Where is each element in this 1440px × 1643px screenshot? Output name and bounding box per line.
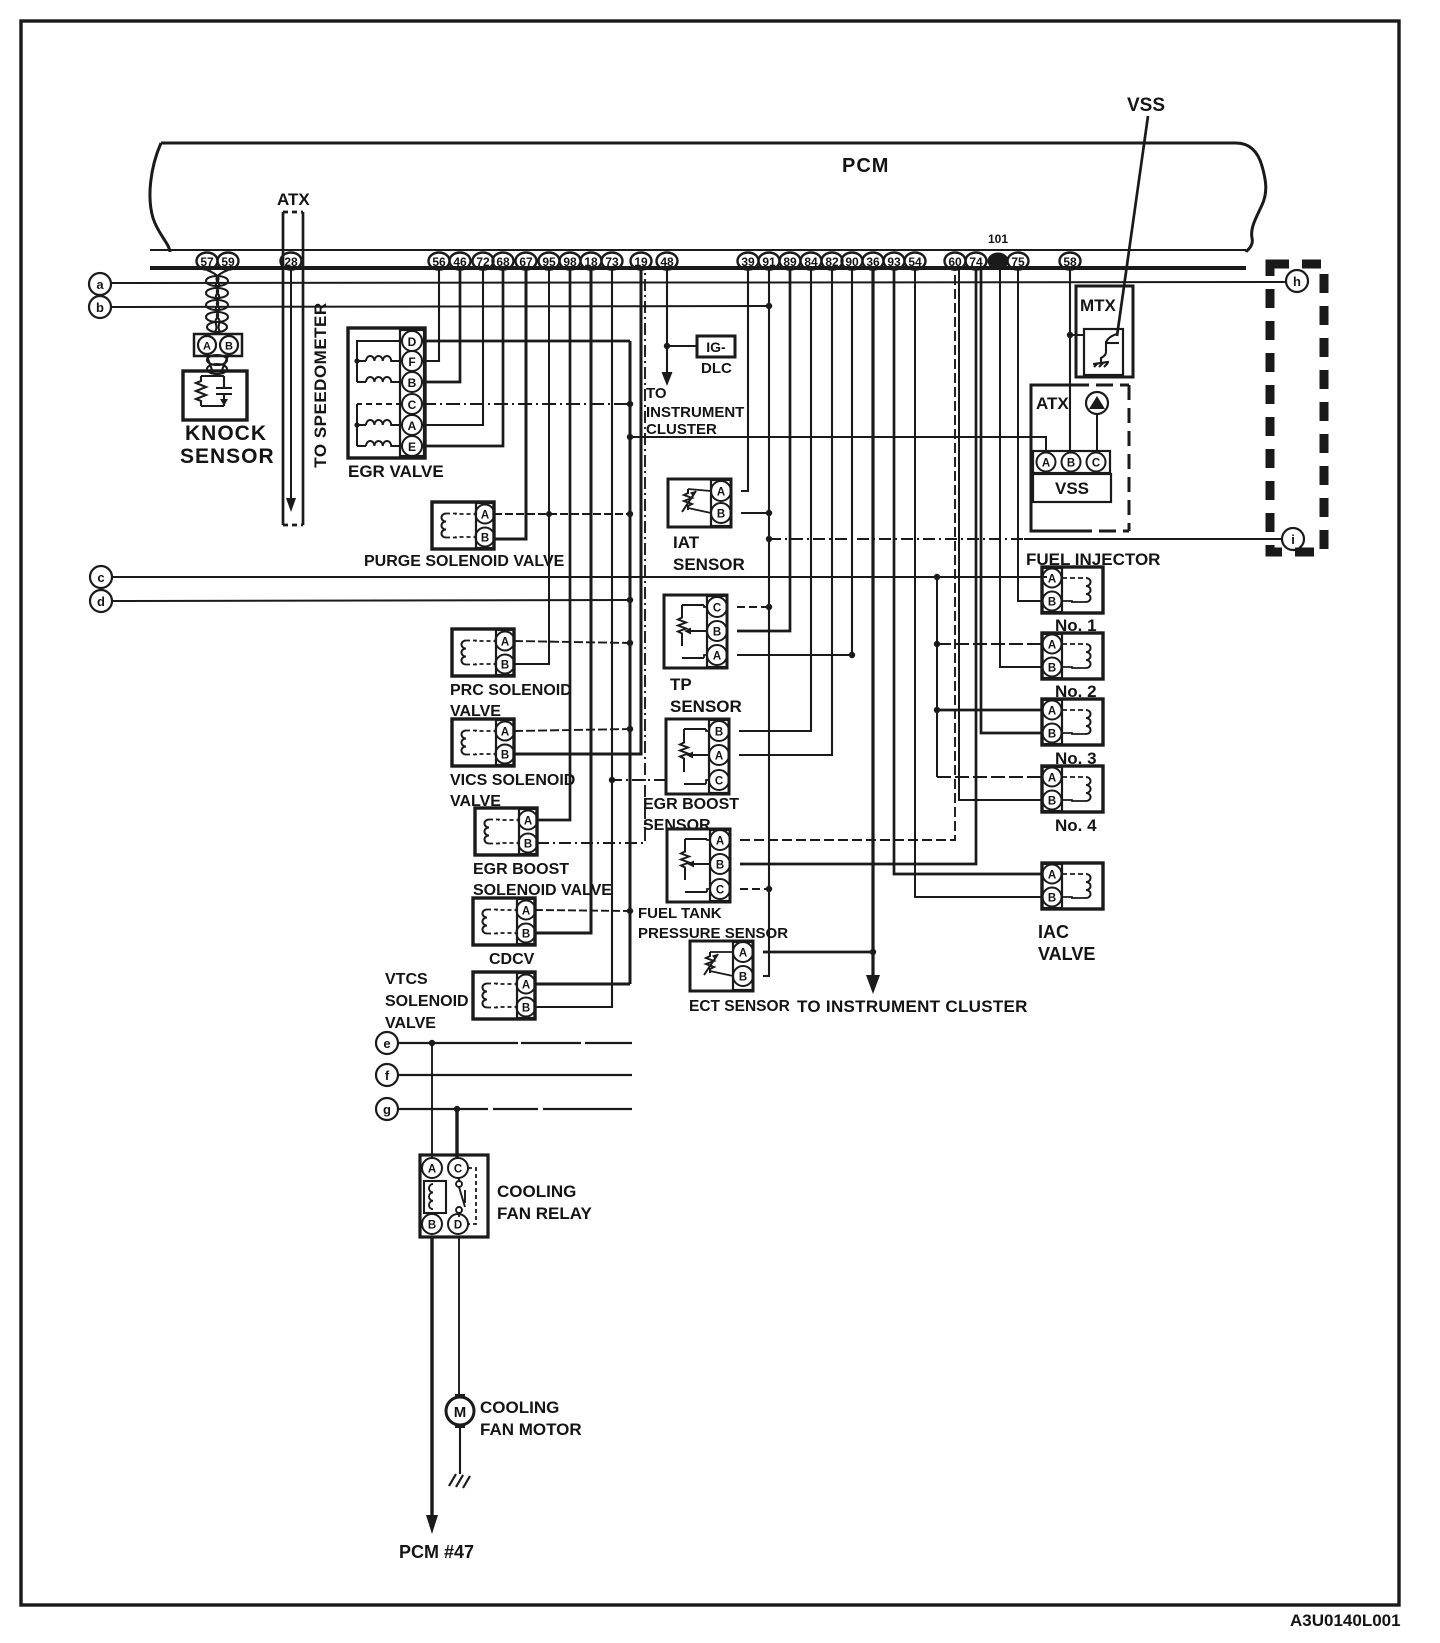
wire IAC A to pin 93 (894, 270, 1042, 874)
svg-text:c: c (97, 570, 104, 585)
pin 90 (842, 253, 863, 270)
wire injector No.1 B to pin 75 (1018, 270, 1042, 601)
svg-text:h: h (1293, 274, 1301, 289)
svg-text:TO: TO (646, 385, 667, 402)
pin 82 (822, 253, 843, 270)
node f (376, 1064, 398, 1086)
node a (89, 273, 111, 295)
node b (89, 296, 111, 318)
svg-text:SOLENOID: SOLENOID (385, 993, 469, 1010)
pin 54 (905, 253, 926, 270)
wire VICS A to supply bus (514, 729, 630, 731)
svg-text:A: A (1048, 773, 1056, 785)
svg-text:B: B (524, 839, 532, 851)
svg-text:B: B (501, 660, 509, 672)
svg-text:91: 91 (762, 255, 776, 269)
svg-text:C: C (1092, 458, 1100, 470)
sensor ground bus (pin 91) (768, 270, 770, 977)
pin 75 (1008, 253, 1029, 270)
node g (376, 1098, 398, 1120)
svg-text:18: 18 (584, 255, 598, 269)
svg-text:57: 57 (200, 255, 214, 269)
wire a to h (111, 282, 1286, 283)
svg-text:FUEL TANK: FUEL TANK (638, 905, 722, 922)
svg-text:EGR VALVE: EGR VALVE (348, 462, 444, 481)
svg-text:98: 98 (563, 255, 577, 269)
svg-text:PCM #47: PCM #47 (399, 1542, 474, 1562)
svg-text:B: B (1048, 796, 1056, 808)
wire d to supply bus (112, 597, 633, 603)
svg-text:IAT: IAT (673, 533, 700, 552)
svg-text:A: A (203, 341, 211, 353)
wire FTP B to pin 74 (740, 270, 976, 864)
pin 73 (602, 253, 623, 270)
wire EGR A to pin 72 (422, 270, 483, 425)
svg-text:B: B (225, 341, 233, 353)
wire CDCV B to pin 18 (535, 270, 591, 933)
wire g junction down to relay C (455, 1109, 458, 1158)
svg-text:B: B (501, 750, 509, 762)
svg-text:a: a (96, 277, 104, 292)
EGR boost sensor (666, 719, 729, 794)
svg-text:39: 39 (741, 255, 755, 269)
svg-text:F: F (408, 355, 415, 369)
svg-text:PCM: PCM (842, 155, 889, 177)
svg-text:B: B (739, 972, 747, 984)
svg-text:B: B (716, 860, 724, 872)
wire PRC A to supply bus (514, 641, 630, 643)
wire VICS B to pin 19 (514, 270, 641, 754)
svg-text:28: 28 (284, 255, 298, 269)
pin 46 (450, 253, 471, 270)
wire supply bus to ATX connector A (630, 437, 1046, 453)
fuel injector No.1 (1042, 567, 1103, 613)
purge solenoid valve (432, 502, 495, 549)
svg-text:54: 54 (908, 255, 922, 269)
svg-text:SENSOR: SENSOR (180, 445, 275, 468)
svg-text:A: A (716, 836, 724, 848)
svg-text:B: B (1067, 458, 1075, 470)
MTX speed sensor switch symbol (1093, 334, 1119, 367)
svg-text:MTX: MTX (1080, 296, 1117, 315)
svg-text:B: B (408, 376, 417, 390)
svg-text:A: A (717, 487, 725, 499)
wire injector No.4 A (937, 776, 1042, 778)
svg-text:19: 19 (634, 255, 648, 269)
wire EGR B to pin 46 (422, 270, 460, 382)
wire IAC B to pin 54 (915, 270, 1042, 897)
svg-text:C: C (454, 1164, 462, 1176)
svg-text:EGR BOOST: EGR BOOST (473, 861, 569, 878)
PCM module body (150, 143, 1266, 252)
svg-text:i: i (1291, 532, 1295, 547)
svg-text:75: 75 (1011, 255, 1025, 269)
supply bus vertical (node B+) (627, 341, 633, 984)
pin 56 (429, 253, 450, 270)
wire e (to relay A) (398, 1040, 632, 1046)
svg-text:VALVE: VALVE (385, 1015, 436, 1032)
svg-text:f: f (385, 1068, 390, 1083)
fuel injector No.3 (1042, 699, 1103, 745)
svg-text:TP: TP (670, 675, 692, 694)
ATX speedometer band (283, 212, 303, 525)
IAC valve (1042, 863, 1103, 909)
svg-text:A: A (1042, 458, 1050, 470)
svg-text:B: B (522, 929, 530, 941)
wire IAT A to pin 39 (741, 270, 748, 491)
svg-text:A: A (1048, 574, 1056, 586)
svg-text:FAN MOTOR: FAN MOTOR (480, 1420, 582, 1439)
svg-text:COOLING: COOLING (480, 1398, 559, 1417)
wire TP B to pin 89 (737, 270, 790, 631)
svg-text:B: B (717, 509, 725, 521)
svg-text:72: 72 (476, 255, 490, 269)
svg-text:C: C (715, 776, 723, 788)
PCM connector strip lower line (150, 266, 1246, 270)
svg-text:M: M (454, 1404, 467, 1421)
PCM connector strip upper line (150, 249, 1246, 251)
svg-text:C: C (713, 603, 721, 615)
pin 89 (780, 253, 801, 270)
svg-text:VICS SOLENOID: VICS SOLENOID (450, 772, 575, 789)
svg-text:TO SPEEDOMETER: TO SPEEDOMETER (311, 302, 330, 467)
wire injector No.4 B (959, 270, 1042, 800)
wire e junction down to relay A (431, 1043, 433, 1158)
wire EGR D to supply bus (422, 340, 630, 343)
svg-text:C: C (408, 398, 417, 412)
svg-text:A: A (739, 948, 747, 960)
wire VTCS B to pin 73 (535, 270, 612, 1007)
ATX unit (VSS) (1031, 385, 1129, 531)
svg-text:FAN RELAY: FAN RELAY (497, 1204, 592, 1223)
svg-text:A: A (713, 651, 721, 663)
injector supply branch (from c) (934, 577, 940, 777)
svg-text:ATX: ATX (277, 190, 310, 209)
wire f (398, 1074, 632, 1076)
VSS box label (1033, 474, 1111, 502)
wire purge B to pin 67 (494, 270, 526, 539)
svg-text:DLC: DLC (701, 360, 732, 377)
wire FTP C to pin 91 bus (740, 886, 772, 892)
svg-text:A: A (1048, 706, 1056, 718)
svg-text:A: A (481, 510, 489, 522)
wire injector No.3 A (937, 709, 1042, 712)
pin 48 (657, 253, 678, 270)
svg-text:d: d (97, 594, 105, 609)
knock sensor KS (183, 371, 247, 420)
wire EGR F to pin 56 (422, 270, 439, 361)
pin 101 (solid) (988, 232, 1009, 270)
svg-text:B: B (481, 533, 489, 545)
pin 84 (801, 253, 822, 270)
svg-text:B: B (522, 1003, 530, 1015)
svg-text:A: A (522, 980, 530, 992)
wire VSS diagonal to MTX (1117, 116, 1148, 336)
svg-text:D: D (408, 335, 417, 349)
svg-text:58: 58 (1063, 255, 1077, 269)
pin 18 (581, 253, 602, 270)
svg-text:E: E (408, 440, 416, 454)
wire pin 48 drop with junction (664, 270, 670, 372)
wire i to pin91 bus (sensor ground) (766, 536, 1282, 542)
svg-text:84: 84 (804, 255, 818, 269)
EGR valve U1 (348, 328, 425, 458)
wire FTP A to pin 60 (740, 270, 955, 840)
VICS solenoid valve (452, 719, 515, 766)
svg-text:PRC SOLENOID: PRC SOLENOID (450, 682, 572, 699)
svg-text:VALVE: VALVE (1038, 944, 1095, 964)
svg-text:SENSOR: SENSOR (673, 555, 745, 574)
wire ECT A to pin 36 (763, 949, 876, 955)
svg-text:PRESSURE SENSOR: PRESSURE SENSOR (638, 925, 788, 942)
svg-text:IG-: IG- (706, 339, 726, 355)
wire TP C to pin 91 bus (737, 604, 772, 610)
svg-text:56: 56 (432, 255, 446, 269)
ECT sensor (690, 941, 753, 991)
svg-text:A: A (408, 419, 417, 433)
wire c to fuel injector No.1 pin A (112, 574, 1047, 580)
wire EGR boost solenoid A to pin 98 (537, 270, 570, 820)
pin 60 (945, 253, 966, 270)
svg-text:B: B (1048, 729, 1056, 741)
pin 59 (218, 253, 239, 270)
MTX unit (1076, 286, 1133, 377)
svg-text:No. 4: No. 4 (1055, 816, 1097, 835)
pin 67 (516, 253, 537, 270)
wire twisted pair pins 57/59 to knock sensor connector (206, 270, 228, 332)
cooling fan relay K1 (420, 1155, 488, 1237)
wire CDCV A to supply bus (535, 910, 630, 911)
svg-text:48: 48 (660, 255, 674, 269)
svg-text:CDCV: CDCV (489, 951, 535, 968)
IAT sensor (668, 479, 731, 527)
node c (90, 566, 112, 588)
svg-text:ATX: ATX (1036, 394, 1069, 413)
svg-text:e: e (383, 1036, 390, 1051)
svg-text:VSS: VSS (1127, 95, 1165, 116)
svg-text:SENSOR: SENSOR (670, 697, 742, 716)
wire TP A to pin 90 (737, 270, 855, 658)
fuel injector No.4 (1042, 766, 1103, 812)
svg-text:VTCS: VTCS (385, 971, 428, 988)
svg-text:B: B (428, 1220, 436, 1232)
pin 95 (539, 253, 560, 270)
pin 36 drop to instrument cluster (arrow) (866, 270, 880, 994)
svg-text:89: 89 (783, 255, 797, 269)
pin 36 (863, 253, 884, 270)
wire VTCS A to supply bus (535, 983, 630, 986)
fuel injector No.2 (1042, 633, 1103, 679)
wire b to pin91 bus (111, 303, 772, 309)
node i (1282, 528, 1304, 550)
wire EGR E to pin 68 (422, 270, 503, 446)
wire IAT B to pin 91 bus (741, 510, 772, 516)
svg-text:46: 46 (453, 255, 467, 269)
node d (90, 590, 112, 612)
svg-text:A: A (1048, 640, 1056, 652)
svg-text:CLUSTER: CLUSTER (646, 421, 717, 438)
wire motor to ground (459, 1428, 461, 1474)
wire injector No.2 A (937, 643, 1042, 645)
CDCV (473, 898, 536, 945)
svg-text:D: D (454, 1220, 462, 1232)
svg-text:VSS: VSS (1055, 479, 1089, 498)
cooling fan motor M1 (446, 1394, 474, 1428)
svg-text:IAC: IAC (1038, 922, 1069, 942)
VTCS solenoid valve (473, 972, 536, 1019)
wire relay D to cooling fan motor (458, 1237, 460, 1397)
svg-text:A: A (501, 727, 509, 739)
wire PRC B to pin 95 (514, 270, 549, 664)
wire injector No.3 B (981, 270, 1042, 733)
svg-text:A: A (501, 637, 509, 649)
pin 19 (631, 253, 652, 270)
svg-text:C: C (716, 885, 724, 897)
pin 98 (560, 253, 581, 270)
VSS pickup symbol (1086, 392, 1108, 453)
svg-text:60: 60 (948, 255, 962, 269)
ground (cooling fan motor) (449, 1474, 470, 1488)
svg-text:A3U0140L001: A3U0140L001 (1290, 1611, 1401, 1630)
svg-text:36: 36 (866, 255, 880, 269)
wire EGR boost sensor A to pin 82 (739, 270, 832, 755)
svg-text:59: 59 (221, 255, 235, 269)
pin 72 (473, 253, 494, 270)
wire EGR boost sensor B to pin 84 (739, 270, 811, 731)
arrow to instrument cluster (DLC branch) (662, 372, 673, 386)
wire injector No.2 B to pin 101 (1000, 270, 1042, 667)
svg-text:A: A (522, 906, 530, 918)
pin 93 (884, 253, 905, 270)
svg-text:ECT SENSOR: ECT SENSOR (689, 998, 790, 1015)
svg-text:73: 73 (605, 255, 619, 269)
wire relay B to PCM #47 (arrow) (426, 1237, 438, 1534)
pin 91 (759, 253, 780, 270)
pin 74 (966, 253, 987, 270)
wire EGR boost sensor C to pin 73 drop (609, 777, 666, 783)
pin 39 (738, 253, 759, 270)
node h (1286, 270, 1308, 292)
TP sensor (664, 595, 727, 668)
wire pin 28 to speedometer (arrow) (286, 270, 296, 512)
connector IG- (DLC) (697, 336, 735, 357)
svg-text:B: B (1048, 597, 1056, 609)
svg-text:95: 95 (542, 255, 556, 269)
wire EGR boost solenoid B to band (537, 270, 645, 843)
svg-text:g: g (383, 1102, 391, 1117)
pin 28 (281, 253, 302, 270)
wire purge A to supply bus (494, 511, 630, 517)
wire twisted pair connector to knock sensor (207, 355, 228, 374)
wire junction to IG-DLC box (667, 345, 697, 347)
svg-text:A: A (524, 816, 532, 828)
svg-text:B: B (1048, 663, 1056, 675)
svg-text:PURGE SOLENOID VALVE: PURGE SOLENOID VALVE (364, 553, 565, 570)
svg-text:82: 82 (825, 255, 839, 269)
node e (376, 1032, 398, 1054)
wire pin 58 to ATX connector B (1067, 270, 1084, 453)
svg-text:EGR BOOST: EGR BOOST (643, 796, 739, 813)
pin 68 (493, 253, 514, 270)
svg-text:90: 90 (845, 255, 859, 269)
svg-text:B: B (713, 627, 721, 639)
dashed connector outline (right) (1270, 264, 1324, 552)
svg-text:B: B (715, 727, 723, 739)
pin 58 (1060, 253, 1081, 270)
wire g (to relay C) (398, 1106, 632, 1112)
fuel tank pressure sensor (667, 829, 730, 902)
svg-text:SENSOR: SENSOR (643, 817, 711, 834)
svg-text:INSTRUMENT: INSTRUMENT (646, 404, 744, 421)
svg-text:A: A (1048, 870, 1056, 882)
svg-text:A: A (715, 751, 723, 763)
svg-text:COOLING: COOLING (497, 1182, 576, 1201)
PRC solenoid valve (452, 629, 515, 676)
wire EGR C to supply bus (dash-dot) (422, 403, 630, 405)
pin 57 (197, 253, 218, 270)
svg-text:68: 68 (496, 255, 510, 269)
svg-text:b: b (96, 300, 104, 315)
svg-text:101: 101 (988, 232, 1008, 246)
svg-text:B: B (1048, 893, 1056, 905)
wire ECT B to pin 91 bus end (763, 975, 769, 977)
svg-text:93: 93 (887, 255, 901, 269)
knock sensor connector A B (194, 334, 242, 356)
EGR boost solenoid valve (475, 808, 538, 855)
ATX connector A B C (1033, 451, 1110, 473)
svg-text:KNOCK: KNOCK (185, 422, 267, 445)
svg-text:TO INSTRUMENT CLUSTER: TO INSTRUMENT CLUSTER (797, 997, 1028, 1016)
svg-text:A: A (428, 1164, 436, 1176)
svg-text:74: 74 (969, 255, 983, 269)
svg-text:67: 67 (519, 255, 533, 269)
